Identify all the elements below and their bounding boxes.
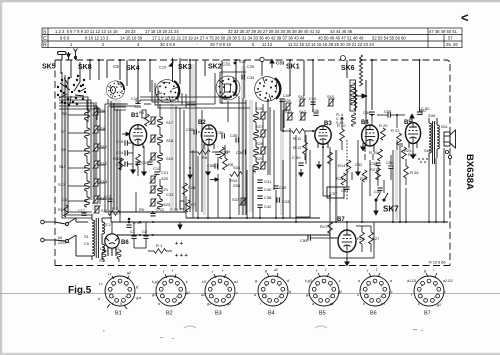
resistor R19	[378, 149, 383, 161]
capacitor C38	[257, 196, 262, 198]
svg-text:C17: C17	[78, 209, 85, 213]
svg-text:C57: C57	[330, 191, 338, 196]
svg-text:L2: L2	[115, 247, 119, 251]
svg-text:17 1 2 18 22 21 23 19 24 27 4: 17 1 2 18 22 21 23 19 24 27 4 75 26 58 2…	[152, 36, 305, 41]
svg-text:R 16 8 86: R 16 8 86	[429, 261, 445, 265]
svg-text:R17: R17	[320, 224, 328, 229]
resistor R7 trimmer block	[180, 200, 197, 212]
rail y218	[186, 217, 320, 219]
capacitor C42	[257, 205, 262, 207]
svg-text:B6: B6	[121, 240, 129, 246]
svg-text:C14: C14	[116, 150, 124, 155]
svg-text:29 7 8 9 10: 29 7 8 9 10	[210, 42, 232, 47]
mains switch	[55, 218, 92, 256]
svg-text:C55: C55	[300, 238, 308, 243]
arrow on SK6	[356, 94, 367, 98]
resistor R10 vertical	[340, 129, 345, 141]
svg-text:C26: C26	[186, 127, 194, 132]
capacitor C10	[147, 162, 152, 164]
svg-text:C51: C51	[341, 188, 349, 193]
svg-text:B1: B1	[115, 311, 122, 317]
svg-text:S18: S18	[166, 138, 174, 143]
svg-text:C52: C52	[355, 162, 363, 167]
faint specks bottom	[103, 329, 423, 339]
svg-text:R 22: R 22	[391, 128, 400, 133]
svg-text:C56: C56	[374, 189, 382, 194]
svg-text:BX638A: BX638A	[464, 154, 475, 190]
svg-text:,c: ,c	[338, 279, 341, 283]
wafer switch SK8	[103, 78, 127, 102]
svg-text:S40: S40	[285, 110, 292, 114]
coil S21 S22 capacitor C23	[150, 185, 175, 197]
input arrow to B1	[122, 132, 129, 135]
capacitor C44	[279, 99, 284, 101]
capacitor C6 / coil S16	[62, 195, 108, 207]
capacitor C21 / trimmer S20	[150, 170, 170, 184]
svg-text:R 26: R 26	[410, 170, 419, 175]
tube B6 rectifier	[105, 234, 119, 256]
svg-text:C40: C40	[264, 187, 272, 192]
svg-text:47 48 49 50 51: 47 48 49 50 51	[429, 29, 458, 34]
svg-text:S8: S8	[100, 126, 106, 131]
svg-text:25 23: 25 23	[125, 29, 136, 34]
capacitor C1	[131, 236, 136, 238]
ground under B5	[411, 151, 415, 158]
long supply rails	[111, 212, 448, 235]
wafer switch SK2	[211, 71, 245, 105]
svg-text:R21: R21	[370, 167, 378, 172]
svg-text:B5: B5	[404, 120, 412, 126]
svg-text:C15: C15	[116, 139, 124, 144]
svg-text:6: 6	[112, 302, 114, 306]
capacitor C2	[143, 236, 148, 238]
table row S numbers	[55, 29, 458, 34]
svg-text:C 22: C 22	[156, 208, 164, 212]
junction dots	[137, 95, 445, 236]
svg-text:g2: g2	[330, 302, 334, 306]
trimmer row under SK2/SK1	[279, 94, 334, 121]
resistor R6	[198, 150, 210, 155]
tube B4	[362, 125, 379, 146]
coil S19	[150, 152, 174, 163]
coil S29 / trimmer S31	[254, 156, 267, 172]
svg-text:S35: S35	[233, 183, 241, 188]
svg-text:R 3: R 3	[112, 207, 118, 211]
svg-text:·g,a: ·g,a	[135, 296, 141, 300]
svg-text:L1: L1	[100, 247, 104, 251]
svg-text:11 12: 11 12	[262, 42, 273, 47]
svg-text:S7: S7	[61, 129, 67, 134]
coil S9 / trimmer S10	[61, 143, 108, 156]
svg-text:S17: S17	[166, 120, 174, 125]
svg-text:a: a	[254, 293, 256, 297]
svg-text:g3: g3	[227, 302, 231, 306]
resistor R5 zigzag	[145, 114, 150, 126]
svg-text:C23: C23	[166, 192, 174, 197]
parts table frame	[42, 28, 462, 48]
capacitor C13b	[107, 199, 112, 201]
svg-text:u: u	[357, 293, 359, 297]
switch SK7	[375, 193, 388, 208]
svg-text:8 10 12 13 3: 8 10 12 13 3	[85, 36, 109, 41]
svg-text:S11: S11	[59, 164, 67, 169]
battery plus marks	[175, 241, 188, 259]
oscillator coil ladder S5-S16	[58, 100, 108, 207]
svg-text:g1: g1	[152, 293, 156, 297]
socket B7	[407, 268, 453, 317]
svg-text:C10: C10	[153, 166, 161, 171]
svg-text:g1: g1	[306, 293, 310, 297]
svg-text:+ +: + +	[175, 241, 183, 247]
ground under B2	[206, 168, 210, 175]
svg-text:R 11: R 11	[293, 136, 302, 141]
junction dots on top border	[89, 59, 373, 61]
scan smudge bands	[63, 64, 398, 220]
svg-text:k,g3: k,g3	[152, 280, 159, 284]
svg-text:S49: S49	[428, 113, 436, 118]
svg-text:S20: S20	[161, 176, 169, 181]
tube B5	[405, 123, 420, 144]
socket B3	[201, 269, 238, 317]
svg-text:30 4 5 6: 30 4 5 6	[160, 42, 176, 47]
svg-text:11 21 16 13 14 15 16 28 29 20: 11 21 16 13 14 15 16 28 29 20 19 21 22 2…	[288, 42, 375, 47]
bleeder arrow	[178, 222, 182, 229]
capacitor C35	[236, 137, 238, 142]
resistor R8	[223, 158, 228, 170]
svg-text:C55: C55	[384, 109, 392, 114]
capacitor C53	[375, 163, 380, 165]
wafer switch SK5 contact cloud	[57, 75, 86, 106]
svg-text:C45: C45	[309, 97, 316, 101]
ground under C50	[299, 169, 303, 176]
bottom faint arc left	[184, 326, 196, 328]
svg-text:R4: R4	[139, 111, 144, 115]
svg-text:R5: R5	[139, 208, 144, 212]
svg-text:C31: C31	[222, 62, 231, 67]
socket B5	[305, 268, 342, 317]
coil S28	[254, 141, 267, 157]
svg-text:C6: C6	[62, 197, 68, 202]
svg-text:R28: R28	[188, 185, 196, 190]
nested wiring around SK3 wafer	[152, 80, 196, 108]
resistor R9	[220, 147, 225, 159]
svg-text:C34: C34	[247, 75, 255, 80]
svg-text:g2: g2	[338, 290, 342, 294]
wires from border to wafers	[61, 58, 420, 112]
svg-text:R 20: R 20	[379, 123, 388, 128]
svg-text:C44: C44	[283, 94, 290, 98]
capacitor C22 on heater rail	[150, 208, 164, 216]
svg-text:S 2: S 2	[105, 223, 111, 227]
junction dot C31	[234, 62, 237, 65]
svg-text:S43: S43	[327, 95, 334, 99]
svg-text:i.c: i.c	[99, 282, 103, 286]
svg-text:R 19: R 19	[369, 150, 378, 155]
coil S17	[150, 116, 174, 127]
svg-text:R7: R7	[191, 202, 197, 207]
earth Y terminal	[74, 49, 78, 61]
svg-text:C2: C2	[142, 229, 148, 234]
resistor R2	[64, 205, 69, 217]
svg-text:a1,D1: a1,D1	[407, 279, 417, 283]
svg-text:S12: S12	[100, 161, 108, 166]
svg-text:<: <	[461, 10, 469, 25]
svg-text:B7: B7	[424, 311, 431, 317]
svg-text:B5: B5	[319, 311, 326, 317]
rail y235	[117, 234, 330, 236]
tube B3	[315, 126, 331, 144]
capacitor C55	[308, 235, 310, 240]
capacitor C46	[313, 113, 318, 115]
rail y212	[120, 211, 186, 213]
svg-text:S29: S29	[239, 60, 246, 64]
svg-text:C35: C35	[230, 133, 238, 138]
resistor R22	[397, 133, 402, 145]
IF coil ladder S17-S23	[150, 104, 175, 209]
resistor R21	[376, 168, 381, 180]
B7 surroundings	[296, 150, 380, 265]
svg-text:a1: a1	[234, 280, 238, 284]
capacitor C30	[222, 133, 224, 138]
svg-text:C9: C9	[113, 64, 119, 69]
resistor R17	[328, 222, 333, 234]
svg-text:R14: R14	[338, 163, 346, 168]
resistor R28	[183, 183, 188, 195]
capacitor C49	[369, 112, 374, 114]
svg-text:R2: R2	[58, 208, 63, 212]
svg-text:i.c: i.c	[108, 272, 112, 276]
svg-text:,c: ,c	[443, 290, 446, 294]
svg-text:k: k	[280, 301, 282, 305]
wafer switch SK1	[251, 73, 283, 105]
svg-text:g: g	[265, 269, 267, 273]
svg-text:S41: S41	[298, 95, 305, 99]
svg-text:B2: B2	[166, 311, 173, 317]
svg-text:SK5: SK5	[42, 64, 56, 71]
svg-text:k: k	[186, 280, 188, 284]
left nested wiring loom around SK5/SK8	[59, 72, 274, 234]
resistor R1	[154, 249, 166, 254]
long wire from SK6 area down	[365, 80, 367, 146]
scanner top bar	[0, 0, 500, 2]
svg-text:R20: R20	[357, 236, 365, 241]
svg-text:SK1: SK1	[286, 64, 300, 71]
svg-text:C30: C30	[216, 130, 224, 135]
svg-text:C 25: C 25	[170, 208, 178, 212]
cathode resistor below B1	[136, 154, 141, 166]
AF/output cluster resistors	[328, 149, 383, 194]
svg-text:C1: C1	[130, 229, 136, 234]
svg-text:S33: S33	[233, 165, 241, 170]
svg-text:C33: C33	[276, 61, 285, 66]
resistor R11	[292, 129, 304, 134]
svg-text:5: 5	[120, 302, 122, 306]
svg-text:17 18 19 20 21 24: 17 18 19 20 21 24	[145, 29, 179, 34]
capacitor C56	[377, 188, 382, 190]
svg-text:,c: ,c	[235, 291, 238, 295]
svg-text:b0: b0	[58, 236, 62, 240]
ground cathode B3	[317, 161, 321, 168]
mains terminals outside chassis	[41, 220, 55, 242]
svg-text:S14: S14	[100, 179, 108, 184]
capacitor C34 label	[242, 75, 244, 80]
svg-text:g4: g4	[178, 301, 182, 305]
antenna terminal pill	[58, 52, 67, 61]
capacitor C13	[135, 162, 140, 164]
tube B7	[330, 222, 374, 258]
resistor R12	[303, 142, 308, 154]
socket B6	[357, 268, 393, 317]
svg-text:g: g	[255, 279, 257, 283]
svg-text:14 15 16 59: 14 15 16 59	[120, 36, 143, 41]
capacitor C16	[135, 101, 140, 103]
B1 surroundings	[113, 96, 161, 176]
svg-text:k,g3: k,g3	[305, 279, 312, 283]
capacitor C59	[126, 218, 142, 228]
svg-text:g: g	[424, 269, 426, 273]
svg-text:C46: C46	[312, 109, 319, 113]
svg-text:C19: C19	[159, 65, 167, 70]
svg-text:C 50: C 50	[292, 155, 301, 160]
svg-text:k3: k3	[202, 280, 206, 284]
svg-text:SK2: SK2	[208, 64, 222, 71]
svg-text:45 50 46 45 47 51 48 49: 45 50 46 45 47 51 48 49	[318, 36, 364, 41]
svg-text:g2: g2	[186, 291, 190, 295]
svg-text:S51: S51	[441, 125, 448, 129]
svg-text:C41: C41	[264, 179, 272, 184]
svg-text:S13: S13	[58, 182, 66, 187]
resistor R18	[362, 170, 367, 182]
svg-text:S6: S6	[100, 108, 106, 113]
svg-text:a: a	[312, 302, 314, 306]
resistor R23	[402, 147, 407, 159]
mains transformer S1	[92, 214, 112, 260]
svg-text:a2: a2	[274, 268, 278, 272]
svg-text:R47: R47	[420, 109, 427, 113]
B3 surroundings	[283, 110, 346, 176]
svg-text:R16: R16	[336, 176, 344, 181]
loudspeaker S51	[441, 125, 456, 159]
resistor R30	[119, 158, 124, 170]
capacitor C39	[273, 186, 278, 188]
resistor R4	[142, 110, 146, 118]
ground arrow mid	[356, 168, 360, 175]
scanner bottom bar	[0, 353, 500, 355]
svg-text:S9: S9	[61, 147, 67, 152]
svg-text:B4: B4	[268, 311, 275, 317]
socket B4	[254, 268, 292, 317]
trimmer S41	[299, 98, 306, 106]
junction terminal circles on border	[260, 56, 346, 62]
svg-text:S5: S5	[62, 111, 68, 116]
resistor R20	[360, 232, 365, 244]
svg-text:R9: R9	[225, 149, 231, 154]
B2 surroundings	[186, 127, 234, 175]
chassis border right	[449, 64, 451, 266]
trimmer S40	[287, 112, 294, 120]
capacitor C55b	[388, 112, 390, 117]
coil S7 / trimmer S8	[61, 125, 106, 138]
capacitor C33 arrow terminal	[270, 59, 274, 68]
capacitor C43	[277, 197, 279, 202]
capacitor C54	[388, 166, 393, 168]
capacitor C3	[125, 161, 127, 166]
capacitor C41 C40	[257, 180, 262, 182]
svg-text:B3: B3	[215, 311, 222, 317]
resistor R26	[404, 166, 409, 178]
vertical drops to rails	[136, 100, 444, 222]
svg-text:R8: R8	[228, 162, 234, 167]
wire SK2 wafer to B2	[227, 101, 229, 122]
socket B2	[152, 269, 190, 317]
svg-text:B6: B6	[370, 311, 377, 317]
capacitor C28	[215, 152, 220, 154]
svg-text:g1: g1	[207, 302, 211, 306]
capacitor C50b	[417, 112, 422, 114]
tuning coil S45 lower	[352, 113, 356, 126]
svg-text:+ + +: + + +	[175, 253, 188, 259]
B5 and output stage	[386, 59, 430, 185]
SK6 drive linkage	[347, 55, 363, 200]
svg-text:Fig.5: Fig.5	[68, 285, 92, 296]
socket B1	[98, 271, 141, 317]
coil S26	[254, 106, 267, 122]
svg-text:k: k	[418, 302, 420, 306]
svg-text:S42: S42	[299, 110, 306, 114]
svg-text:R: R	[43, 42, 47, 48]
svg-text:25, 26: 25, 26	[446, 42, 458, 47]
capacitor C17	[81, 213, 86, 215]
resistor R15	[341, 173, 346, 185]
svg-text:S23: S23	[163, 202, 171, 207]
chassis border bottom	[55, 265, 450, 267]
switch S37	[240, 197, 247, 205]
svg-text:R30: R30	[113, 156, 121, 161]
svg-text:S16a: S16a	[101, 209, 111, 213]
solder dots	[418, 158, 428, 163]
svg-text:SK7: SK7	[383, 205, 399, 214]
coil form S44 S45	[350, 80, 356, 111]
svg-text:52 53 54 55 56 60: 52 53 54 55 56 60	[372, 36, 406, 41]
wires of ladder1	[87, 100, 96, 197]
output transformer S49	[424, 113, 439, 164]
svg-text:C42: C42	[264, 204, 272, 209]
table row C numbers	[60, 36, 453, 41]
svg-text:g2: g2	[127, 271, 131, 275]
svg-text:S3: S3	[99, 259, 104, 263]
svg-text:57: 57	[448, 36, 453, 41]
coil S18	[150, 134, 174, 145]
svg-text:R 12: R 12	[293, 145, 302, 150]
svg-text:a2,D2: a2,D2	[443, 279, 453, 283]
svg-text:32 33 35 37 39 26 27 28 34 30: 32 33 35 37 39 26 27 28 34 30 36 38 39 4…	[228, 29, 321, 34]
capacitor C57 box	[327, 187, 344, 198]
chassis border left	[54, 60, 56, 266]
capacitor C58	[215, 163, 217, 168]
svg-text:R18: R18	[360, 176, 368, 181]
tube B2	[201, 125, 216, 145]
svg-text:S19: S19	[166, 156, 174, 161]
capacitor C15	[125, 140, 127, 145]
svg-text:i.c: i.c	[389, 290, 393, 294]
svg-text:S39: S39	[284, 99, 291, 103]
mixer ladder S26-S29	[230, 102, 290, 209]
trimmer S42	[300, 112, 307, 120]
ground under B7	[345, 258, 349, 265]
ground cathode B1	[142, 168, 146, 175]
ground under B1	[131, 166, 135, 173]
svg-text:S10: S10	[100, 144, 108, 149]
